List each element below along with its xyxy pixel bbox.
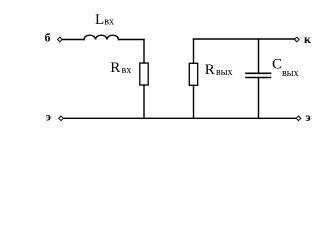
wire: bottom rail bbox=[64, 117, 296, 119]
wire: top rail down to R_вых bbox=[193, 39, 195, 63]
svg-text:э: э bbox=[46, 110, 51, 124]
terminal б (diamond) bbox=[58, 37, 63, 42]
wire: input corner down to R_вх top bbox=[143, 40, 145, 64]
wire: R_вх bottom to bottom rail bbox=[143, 85, 145, 118]
inductor L_вх bbox=[84, 35, 119, 39]
svg-text:вых: вых bbox=[282, 68, 298, 79]
svg-text:к: к bbox=[304, 32, 311, 46]
wire: output top rail bbox=[194, 38, 295, 40]
resistor R_вых bbox=[189, 63, 197, 85]
capacitor C_вых plates bbox=[246, 73, 271, 77]
svg-text:вых: вых bbox=[216, 67, 232, 78]
terminal э right (diamond) bbox=[296, 116, 301, 121]
svg-text:вх: вх bbox=[104, 17, 114, 28]
svg-text:R: R bbox=[205, 62, 215, 78]
svg-text:L: L bbox=[95, 12, 104, 28]
wire: C_вых bottom plate to bottom rail bbox=[258, 78, 260, 119]
wire: б terminal lead to inductor bbox=[63, 39, 85, 41]
svg-text:вх: вх bbox=[122, 65, 132, 76]
terminal к (diamond) bbox=[295, 37, 300, 42]
svg-text:R: R bbox=[110, 60, 120, 76]
resistor R_вх bbox=[140, 63, 148, 85]
svg-text:C: C bbox=[272, 57, 282, 73]
svg-text:б: б bbox=[45, 31, 51, 45]
terminal э left (diamond) bbox=[59, 116, 64, 121]
wire: inductor to input corner bbox=[119, 39, 145, 41]
wire: top rail down to C_вых top plate bbox=[258, 39, 260, 73]
svg-text:э: э bbox=[306, 110, 311, 124]
wire: R_вых bottom to bottom rail bbox=[193, 85, 195, 118]
